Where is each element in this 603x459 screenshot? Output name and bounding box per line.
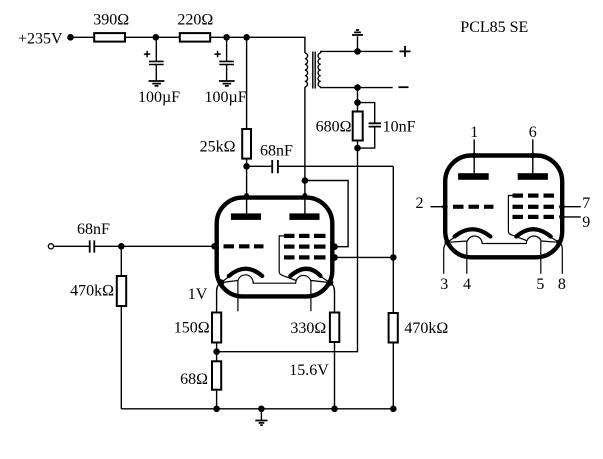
node J cathode junction: [213, 348, 220, 355]
wire: [125, 36, 180, 38]
node grid pin V1: [211, 243, 218, 250]
pentode grid g2 row V2: [513, 205, 524, 209]
capacitor C1 100uF: [138, 37, 180, 105]
capacitor C5 68nF input: [54, 245, 90, 247]
node secondary plus: [354, 48, 361, 55]
node secondary minus: [354, 84, 361, 91]
input terminal: [48, 244, 53, 249]
capacitor C4 68nF coupling: [247, 165, 272, 167]
wire: [210, 37, 305, 53]
svg-text:8: 8: [558, 276, 566, 293]
resistor R7 68ohm: [212, 361, 221, 389]
pin 5 lead: [540, 241, 542, 273]
pentode grid g2 row V1: [284, 245, 295, 249]
resistor R8 330ohm: [330, 313, 339, 343]
wire grid leak vertical: [392, 166, 394, 313]
node H pentode anode: [302, 177, 309, 184]
ground under C2: [219, 81, 235, 86]
resistor R1 390ohm: [94, 33, 125, 42]
triode anode plate V1: [231, 213, 261, 220]
svg-text:7: 7: [582, 195, 590, 212]
resistor R3 680ohm: [357, 103, 359, 149]
heater line V2: [447, 236, 559, 243]
pentode grid g1 row V2: [513, 215, 524, 219]
tube V2 pinout envelope: [445, 156, 562, 258]
svg-text:68nF: 68nF: [77, 221, 110, 238]
pin 9 lead: [562, 216, 581, 218]
wire secondary plus: [321, 51, 393, 53]
cathode arc triode V1: [229, 269, 262, 276]
svg-text:25kΩ: 25kΩ: [200, 138, 236, 155]
cathode arc pentode V2: [516, 229, 550, 236]
svg-text:100µF: 100µF: [138, 89, 180, 106]
triode grid V1: [224, 244, 235, 248]
ground under C1: [149, 81, 165, 86]
wire 25k branch: [246, 37, 248, 129]
pentode anode plate V2: [518, 173, 548, 180]
node g2 pin V1: [331, 243, 338, 250]
wire: [216, 343, 218, 362]
node A: [153, 34, 160, 41]
svg-text:68Ω: 68Ω: [180, 371, 208, 388]
svg-text:+235V: +235V: [18, 30, 63, 47]
capacitor C2 100uF: [205, 37, 247, 105]
pin 8 lead: [559, 242, 562, 273]
node g1 pin V1: [331, 254, 338, 261]
node pin3 cathode: [445, 240, 451, 246]
label minus output: [399, 86, 409, 88]
svg-text:9: 9: [582, 214, 590, 231]
node B: [223, 34, 230, 41]
heater stub wires V1: [238, 281, 311, 311]
pin 1 lead: [473, 139, 475, 173]
node C: [243, 34, 250, 41]
node F triode anode: [243, 163, 250, 170]
g3 bracket V1: [279, 236, 296, 281]
cathode arc triode V2: [455, 229, 491, 236]
wire: [71, 36, 95, 38]
svg-text:10nF: 10nF: [383, 118, 416, 135]
svg-text:100µF: 100µF: [205, 89, 247, 106]
transformer T1 secondary: [318, 53, 321, 87]
cathode arc pentode V1: [290, 269, 320, 276]
node triode cathode: [218, 279, 225, 286]
svg-text:220Ω: 220Ω: [177, 12, 213, 29]
ground rail: [121, 408, 393, 410]
svg-text:390Ω: 390Ω: [93, 12, 129, 29]
pin 2 lead: [431, 206, 445, 208]
resistor R2 220ohm: [180, 33, 210, 42]
svg-text:2: 2: [416, 195, 424, 212]
ground symbol main: [260, 409, 262, 421]
ground on secondary plus (inverted): [357, 36, 359, 51]
wire: [334, 342, 336, 409]
node G pentode grid: [390, 254, 397, 261]
node I input: [118, 243, 125, 250]
pin 7 lead: [562, 206, 581, 208]
capacitor C3 10nF: [358, 103, 375, 123]
wire feedback to cathode: [217, 148, 358, 352]
wire: [392, 343, 394, 409]
node K: [213, 406, 220, 413]
cathode diagonal links V2: [447, 237, 559, 243]
svg-text:15.6V: 15.6V: [289, 362, 329, 379]
wire secondary minus: [321, 86, 393, 89]
pentode grid g3 row V2: [513, 194, 524, 198]
resistor R4 25kohm: [242, 129, 251, 159]
pentode anode plate V1: [289, 213, 319, 220]
wire to grid: [95, 245, 215, 247]
resistor R9 470kohm grid leak: [389, 313, 398, 343]
svg-text:1: 1: [470, 124, 478, 141]
pin 6 lead: [532, 139, 534, 173]
node N: [390, 406, 397, 413]
cathode diagonal links V1: [221, 276, 330, 282]
triode anode plate V2: [458, 173, 489, 180]
svg-text:330Ω: 330Ω: [290, 320, 326, 337]
wire triode anode lead: [246, 166, 248, 213]
svg-text:68nF: 68nF: [260, 143, 293, 160]
triode grid V2: [453, 205, 464, 209]
svg-text:680Ω: 680Ω: [316, 118, 352, 135]
wire: [357, 88, 359, 103]
wire g2 to anode: [305, 181, 348, 247]
svg-text:150Ω: 150Ω: [174, 320, 210, 337]
node pin8 cathode: [556, 240, 562, 246]
g3 bracket V2: [508, 196, 527, 241]
node D: [354, 99, 361, 106]
node E: [354, 145, 361, 152]
node L: [258, 406, 265, 413]
svg-text:1V: 1V: [188, 286, 208, 303]
svg-text:470kΩ: 470kΩ: [70, 282, 114, 299]
wire triode cathode: [217, 283, 221, 313]
wire: [246, 159, 248, 167]
tube V1 envelope: [217, 198, 333, 297]
wire pentode anode lead: [304, 181, 306, 214]
svg-text:PCL85 SE: PCL85 SE: [460, 19, 528, 36]
heater line V1: [221, 275, 330, 283]
wire coupling to grid: [278, 165, 393, 167]
svg-text:470kΩ: 470kΩ: [404, 320, 448, 337]
wire g1: [335, 256, 394, 258]
pentode grid g1 row V1: [284, 255, 295, 259]
transformer T1 primary: [305, 53, 308, 87]
pin 3 lead: [444, 242, 448, 273]
pin 4 lead: [466, 241, 468, 273]
wire: [216, 390, 218, 409]
label plus output: [400, 46, 411, 57]
svg-text:6: 6: [529, 124, 537, 141]
svg-text:3: 3: [440, 276, 448, 293]
resistor R5 470kohm input: [120, 246, 122, 276]
node supply input: [67, 34, 74, 41]
wire pentode cathode: [330, 283, 335, 313]
pentode grid g3 row V1: [284, 234, 295, 238]
resistor R6 150ohm: [212, 313, 221, 343]
node M: [331, 406, 338, 413]
node pentode cathode: [327, 279, 334, 286]
svg-text:5: 5: [536, 276, 544, 293]
svg-text:4: 4: [463, 276, 471, 293]
wire to ground rail: [120, 306, 122, 409]
transformer T1 core: [313, 52, 315, 89]
wire primary to anode: [304, 87, 306, 181]
